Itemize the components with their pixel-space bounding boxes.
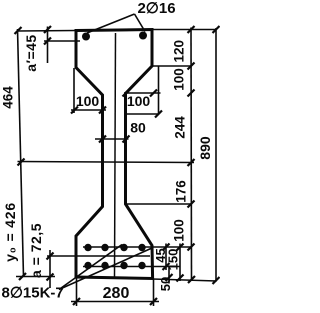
tick bottom at left line: [19, 273, 26, 280]
tick B centroid: [188, 159, 195, 166]
tick B y247: [188, 244, 195, 251]
svg-text:2∅16: 2∅16: [137, 0, 175, 17]
top edge extension to right chains: [152, 29, 217, 31]
right overhang extension line A: [158, 66, 160, 115]
svg-text:50: 50: [158, 277, 173, 291]
tick C top: [213, 26, 220, 33]
section vertical centerline: [115, 33, 116, 277]
tick a' top: [44, 26, 51, 33]
svg-text:100: 100: [127, 93, 151, 109]
dimension line 280: [71, 301, 159, 303]
svg-text:280: 280: [103, 285, 130, 302]
svg-text:80: 80: [130, 119, 146, 135]
dimension line 100 left: [71, 109, 106, 111]
leader to bottom bars row2: [59, 248, 152, 290]
bottom edge extension right: [153, 279, 217, 281]
tick web level: [155, 111, 162, 118]
left outer dimension line: [18, 29, 24, 277]
svg-text:a′=45: a′=45: [23, 34, 39, 71]
web top level line right: [126, 113, 160, 115]
flange corner extension right y66: [152, 65, 191, 67]
svg-text:100: 100: [76, 93, 100, 109]
bottom reference line left: [16, 276, 55, 278]
extension line 280 right: [153, 279, 155, 306]
tick a top: [47, 253, 54, 260]
dimension line a=72,5: [49, 250, 51, 288]
tick B top: [188, 26, 195, 33]
svg-text:100: 100: [172, 219, 187, 242]
top bar level line: [44, 40, 80, 42]
left overhang 100 extension line: [73, 68, 75, 113]
bottom row2 extension right: [83, 266, 180, 268]
tick 100L right: [99, 107, 106, 114]
tick B y93: [188, 90, 195, 97]
tick 80 right: [123, 136, 130, 143]
dimension line 150 (flange depth): [179, 244, 181, 282]
top edge extension to left: [18, 30, 77, 33]
tick a' bar level: [44, 38, 51, 45]
tick B bottom: [188, 276, 195, 283]
bar group centroid line: [47, 255, 150, 257]
bottom flange rebar row 1: [84, 244, 145, 251]
tick left line top: [15, 27, 22, 34]
centroid axis line full width: [18, 162, 195, 163]
tick 100R right: [150, 90, 157, 97]
beam I-section outline: [76, 30, 153, 279]
bottom flange rebar row 2: [84, 262, 145, 269]
leader to left top bar: [87, 14, 135, 33]
tick a bottom: [47, 274, 54, 281]
svg-text:176: 176: [174, 180, 189, 203]
tick 80 left: [99, 136, 106, 143]
leader to bottom bars row1: [59, 245, 122, 290]
dimension line 80 web: [95, 138, 129, 140]
tick 50 bottom: [166, 274, 173, 281]
tick 45 bottom: [163, 263, 170, 270]
chain dimension line B: [190, 28, 193, 282]
tick 280 right: [150, 298, 157, 305]
tick 45 top: [163, 244, 170, 251]
svg-text:120: 120: [172, 40, 187, 63]
tick centroid at left line: [18, 159, 25, 166]
chain dimension line C outer: [215, 28, 217, 282]
svg-text:8∅15K-7: 8∅15K-7: [2, 285, 64, 302]
bottom row1 extension right: [83, 246, 191, 248]
tick 100R left: [123, 90, 130, 97]
svg-text:a = 72,5: a = 72,5: [28, 223, 44, 278]
svg-text:100: 100: [172, 68, 187, 91]
tick 100L left: [71, 107, 78, 114]
dimension line a'=45: [47, 27, 49, 64]
svg-text:150: 150: [165, 249, 180, 271]
svg-text:244: 244: [173, 116, 188, 139]
extension line 280 left: [76, 277, 78, 306]
web knee extension right y204: [126, 203, 192, 205]
tick 280 left: [73, 298, 80, 305]
rebar dot top-right: [139, 32, 147, 40]
tick B y204: [188, 201, 195, 208]
svg-text:y₀ = 426: y₀ = 426: [2, 202, 18, 262]
leader to right top bar: [135, 14, 146, 32]
dimension line 100 right: [124, 92, 161, 94]
rebar dot top-left (2 no.16): [82, 33, 90, 41]
dimension line 45 (row spacing): [165, 244, 167, 271]
tick 150 top: [177, 244, 184, 251]
tick B y66: [188, 63, 195, 70]
tick 150 bottom: [177, 275, 184, 282]
svg-text:464: 464: [0, 86, 15, 109]
tick C bottom: [213, 277, 220, 284]
svg-text:890: 890: [197, 136, 213, 160]
dimension line 50 (bottom cover): [168, 267, 170, 284]
